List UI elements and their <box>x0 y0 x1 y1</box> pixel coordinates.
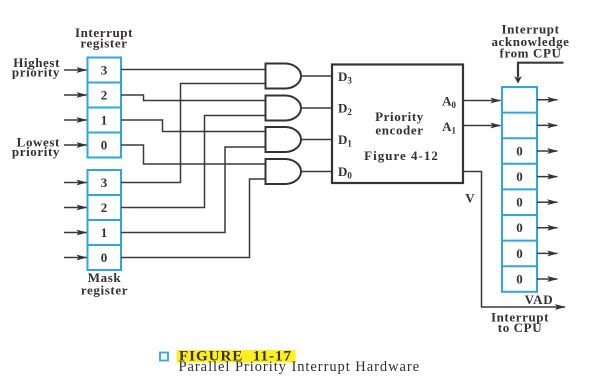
VAD register output arrow cell 1 <box>537 99 557 101</box>
caption bullet square <box>160 353 168 361</box>
wire: mask bit 1 to AND gate 3 input 2 <box>121 147 266 233</box>
input arrow to interrupt register bit 1 <box>64 119 87 121</box>
wire: IR bit 3 to AND gate 1 input 1 <box>121 69 266 71</box>
svg-text:2: 2 <box>101 200 108 215</box>
wire: IR bit 0 to AND gate 4 input 1 <box>121 145 266 164</box>
svg-text:1: 1 <box>101 225 108 240</box>
VAD register output arrow cell 8 <box>537 278 557 280</box>
mask register bit labels 3,2,1,0 <box>101 175 108 265</box>
svg-text:register: register <box>81 283 128 298</box>
svg-text:1: 1 <box>101 113 108 128</box>
AND gate 2 <box>266 96 301 121</box>
svg-text:from CPU: from CPU <box>500 46 562 61</box>
svg-text:0: 0 <box>516 144 523 159</box>
AND gate 1 <box>266 64 302 89</box>
wire: mask bit 3 to AND gate 1 input 2 <box>121 84 266 183</box>
caption highlight <box>177 350 296 363</box>
label: Lowest priority <box>12 135 60 160</box>
svg-text:3: 3 <box>101 175 108 190</box>
svg-text:register: register <box>80 36 127 51</box>
svg-text:0: 0 <box>516 272 523 287</box>
svg-text:0: 0 <box>101 138 108 153</box>
label: Highest priority <box>12 55 60 80</box>
wire: AND gate 1 output to D3 <box>301 75 332 77</box>
arrowhead of interrupt acknowledge wire <box>514 76 522 83</box>
wire: A1 output to VAD register <box>463 125 501 127</box>
svg-text:3: 3 <box>101 63 108 78</box>
VAD register output arrow cell 7 <box>537 252 557 254</box>
wire: AND gate 3 output to D1 <box>301 139 332 141</box>
svg-text:encoder: encoder <box>375 123 423 138</box>
wire: IR bit 2 to AND gate 2 input 1 <box>121 95 266 101</box>
wire: interrupt acknowledge from CPU into VAD register <box>518 63 564 78</box>
svg-text:Figure 4-12: Figure 4-12 <box>364 148 439 163</box>
label: Interrupt register heading <box>75 25 133 51</box>
interrupt register (4 cells) <box>88 58 122 158</box>
label: Priority encoder <box>375 109 424 138</box>
svg-text:2: 2 <box>101 88 108 103</box>
mask register (4 cells) <box>88 170 122 270</box>
wire: AND gate 4 output to D0 <box>301 171 332 173</box>
input arrow to interrupt register bit 3 (highest priority) <box>64 69 87 71</box>
svg-text:to CPU: to CPU <box>498 320 542 335</box>
input arrow to interrupt register bit 2 <box>64 94 87 96</box>
VAD register output arrow cell 5 <box>537 201 557 203</box>
wire: IR bit 1 to AND gate 3 input 1 <box>121 120 266 132</box>
svg-text:0: 0 <box>516 246 523 261</box>
wire: mask bit 2 to AND gate 2 input 2 <box>121 116 266 208</box>
input arrow to interrupt register bit 0 (lowest priority) <box>64 144 87 146</box>
svg-text:0: 0 <box>101 250 108 265</box>
svg-text:VAD: VAD <box>525 292 554 307</box>
VAD register (8 cells) <box>502 87 537 292</box>
svg-text:priority: priority <box>12 144 60 159</box>
AND gate 3 <box>266 127 302 152</box>
input arrow to mask register bit 2 <box>64 207 87 209</box>
wire: AND gate 2 output to D2 <box>301 107 332 109</box>
wire: mask bit 0 to AND gate 4 input 2 <box>121 179 266 258</box>
priority encoder box U1 <box>332 65 463 184</box>
AND gate 4 <box>266 159 302 184</box>
input arrow to mask register bit 0 <box>64 257 87 259</box>
wire: A0 output to VAD register <box>463 100 501 102</box>
svg-text:0: 0 <box>516 169 523 184</box>
svg-text:Parallel Priority Interrupt Ha: Parallel Priority Interrupt Hardware <box>179 359 421 375</box>
VAD register output arrow cell 2 <box>537 124 557 126</box>
VAD register output arrow cell 4 <box>537 176 557 178</box>
interrupt register bit labels 3,2,1,0 <box>101 63 108 153</box>
svg-text:V: V <box>465 191 475 206</box>
svg-text:0: 0 <box>516 220 523 235</box>
input arrow to mask register bit 1 <box>64 232 87 234</box>
svg-text:priority: priority <box>12 65 60 80</box>
label: Interrupt to CPU <box>491 310 549 336</box>
wire: V output to Interrupt to CPU <box>463 172 565 308</box>
input arrow to mask register bit 3 <box>64 182 87 184</box>
VAD register output arrow cell 6 <box>537 227 557 229</box>
VAD register zero bits <box>516 144 523 287</box>
VAD register output arrow cell 3 <box>537 150 557 152</box>
svg-text:0: 0 <box>516 195 523 210</box>
label: Mask register <box>81 270 128 298</box>
label: Interrupt acknowledge from CPU <box>491 22 569 61</box>
